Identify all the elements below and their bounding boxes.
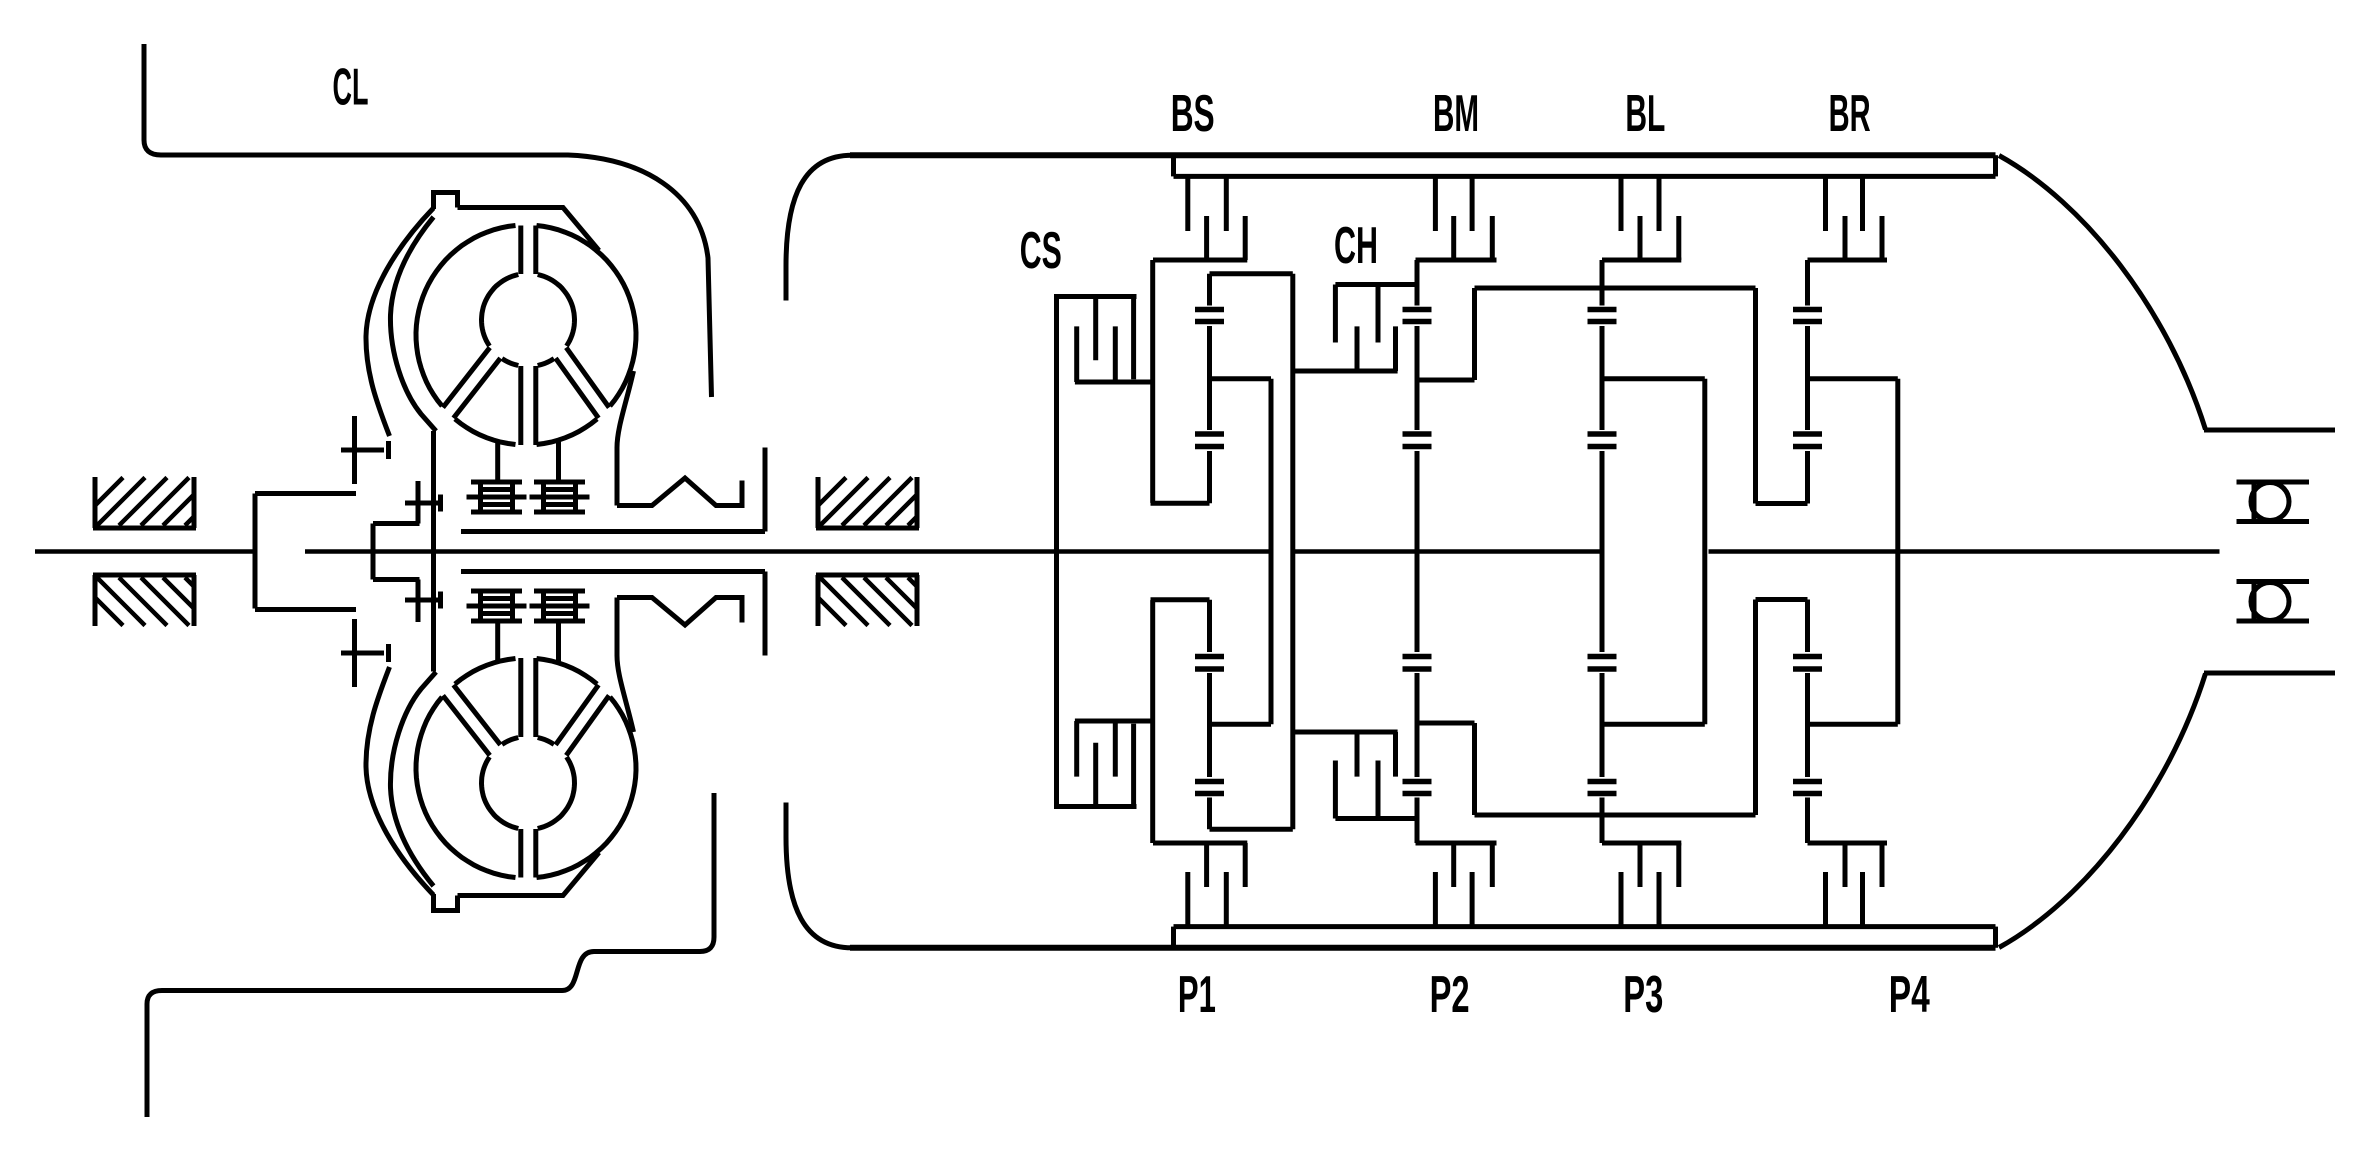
clutch CS inner plate [1093,297,1098,361]
wire: converter cover outer curve (mirror) [366,667,434,895]
wire: P4 carrier output wall [1895,379,1900,724]
clutch CS hub plate 2 [1113,326,1118,382]
clutch CL tick inner [405,501,443,506]
wire: main axis centerline segment [35,549,255,554]
wire: P2-P4 drum top line (mirror) [1475,813,1756,818]
spring: damper zigzag [617,478,742,506]
wire: clutch CS drum wall [1054,297,1059,807]
wire: converter cover top line (mirror) [458,853,600,896]
svg-text:BM: BM [1433,85,1479,143]
gear mesh P1 ring bar 1 [1195,307,1224,313]
wire: P2-P4 drum top line [1475,286,1756,291]
wire: converter pump stem left (mirror) [495,621,500,662]
gear mesh P4 sun bar 2 [1793,444,1822,450]
wire: converter shell inner curve (mirror) [390,672,436,886]
gear mesh P4 ring bar 1 (mirror) [1793,791,1822,797]
wire: P1 carrier bar [1210,376,1272,381]
wire: converter cover top line [458,208,600,251]
damper plate pack right (mirror) [530,591,590,621]
clutch CL tick upper (mirror) [341,651,384,656]
brake BS stator plate (mirror) [1224,872,1229,927]
svg-text:P4: P4 [1889,966,1930,1024]
wire: turbine shaft line [461,529,765,534]
svg-text:P3: P3 [1623,966,1663,1024]
svg-text:P2: P2 [1430,966,1470,1024]
gear mesh P1 sun bar 2 [1195,444,1224,450]
brake BS stator plate [1224,176,1229,231]
gear mesh P4 sun bar 1 (mirror) [1793,666,1822,672]
clutch CS hub plate 1 [1074,326,1079,382]
wire: converter torus outer arc (mirror) [416,697,516,878]
wire: converter torus outer arc [537,419,598,445]
wire: converter diagonal channel right [556,358,599,418]
gear mesh P4 sun bar 1 [1793,431,1822,437]
brake BR rotor plate (mirror) [1843,843,1848,887]
wire: converter impeller exit curve [617,371,634,506]
brake BR rotor plate [1880,216,1885,260]
wire: P2-P4 drum right wall (mirror) [1753,600,1758,816]
clutch CH cup left wall [1333,285,1338,343]
wire: converter split channel upper wall (mirror) [518,829,523,878]
wire: turbine hub step line [373,521,420,526]
brake BS rotor plate (mirror) [1243,843,1248,887]
svg-text:CL: CL [333,59,369,117]
clutch CS hub line [1075,380,1153,385]
ground: case bearing block mid [816,477,919,528]
clutch CL tick upper [341,448,384,453]
brake BM carrier line [1416,258,1497,263]
wire: converter torus outer arc [537,226,637,407]
wire: converter stator hub arc [482,275,519,347]
svg-text:BL: BL [1625,85,1665,143]
brake BL rotor plate [1638,216,1643,260]
brake BM rotor plate [1490,216,1495,260]
clutch CH cup left wall (mirror) [1333,761,1338,819]
gear mesh P2 sun bar 1 [1403,431,1432,437]
wire: main axis centerline segment [305,549,1272,554]
wire: P3 carrier bar [1602,376,1705,381]
brake BR carrier line (mirror) [1808,841,1888,846]
gear mesh P3 sun bar 1 [1588,431,1617,437]
wire: converter split channel lower wall [533,366,538,445]
clutch CL bar inner (mirror) [438,592,443,609]
clutch CH hub plate 2 [1393,326,1398,371]
clutch CS cup top (mirror) [1054,804,1137,809]
damper plate pack left [467,482,527,512]
wire: gearbox case top line [850,152,1996,158]
wire: gearbox case top-left corner (mirror) [786,803,852,948]
clutch CH inner plate (mirror) [1376,761,1381,819]
bearing: output bearing ball [2251,483,2289,521]
wire: output shaft housing line (mirror) [2204,671,2335,676]
clutch CH hub line (mirror) [1293,730,1398,735]
wire: converter shell inner curve [390,217,436,431]
wire: P4 sun shaft line [1756,501,1808,506]
svg-text:CH: CH [1334,217,1378,275]
gear mesh P1 sun bar 1 [1195,431,1224,437]
wire: converter split channel lower wall [518,366,523,445]
gear mesh P2 ring bar 2 (mirror) [1403,779,1432,785]
wire: P3 carrier bar (mirror) [1602,722,1705,727]
wire: input flange top line (mirror) [255,607,356,612]
wire: input flange vertical wall [253,494,258,609]
wire: turbine hub step line (mirror) [373,577,420,582]
wire: brake rail right end [1993,155,1998,176]
clutch CS hub plate 2 (mirror) [1113,721,1118,777]
clutch CH hub plate 2 (mirror) [1393,732,1398,777]
wire: P2-P4 drum left wall (mirror) [1472,723,1477,815]
gear mesh P2 sun bar 2 [1403,444,1432,450]
brake BM rotor plate (mirror) [1490,843,1495,887]
brake BS rotor plate [1204,216,1209,260]
svg-text:BR: BR [1829,85,1871,143]
gear mesh P2 sun bar 2 (mirror) [1403,654,1432,660]
wire: P4 sun shaft line (mirror) [1756,597,1808,602]
clutch CL plate upper (mirror) [352,619,357,687]
wire: brake rail bottom line (mirror) [1174,924,1996,929]
wire: P1 sun drum wall (mirror) [1150,600,1155,843]
wire: planetary P1 pinion line [1207,274,1212,829]
ground: case bearing block mid (mirror) [816,575,919,626]
wire: gearbox case right curve (mirror) [1999,673,2206,948]
svg-text:BS: BS [1171,85,1215,143]
wire: P2 carrier bar [1417,378,1475,383]
wire: converter cover tab (mirror) [434,894,458,911]
clutch CL plate inner [416,481,421,524]
svg-text:CS: CS [1020,222,1062,280]
gear mesh P4 ring bar 2 [1793,319,1822,325]
brake BS rotor plate (mirror) [1204,843,1209,887]
gear mesh P1 ring bar 2 (mirror) [1195,779,1224,785]
clutch CH cup top (mirror) [1335,816,1417,821]
gear mesh P2 ring bar 1 (mirror) [1403,791,1432,797]
wire: converter diagonal channel left (mirror) [443,696,490,756]
ground: case bearing block left hatching [95,478,194,526]
wire: converter diagonal channel right (mirror) [556,685,599,745]
wire: converter diagonal channel left [454,358,501,418]
wire: converter stator hub arc [538,275,575,347]
wire: converter diagonal channel right [566,348,609,408]
wire: input flange top line [255,491,356,496]
wire: converter split channel lower wall (mirror) [518,658,523,737]
wire: main axis centerline segment [1709,549,2220,554]
wire: converter split channel upper wall [533,226,538,275]
clutch CH hub plate 1 (mirror) [1355,732,1360,777]
wire: converter split channel upper wall [518,226,523,275]
wire: converter impeller exit curve (mirror) [617,598,634,733]
wire: input housing line top-left [144,44,712,397]
wire: converter cover outer curve [366,208,434,436]
brake BR stator plate [1860,176,1865,231]
gear mesh P3 ring bar 1 (mirror) [1588,791,1617,797]
wire: P2-P4 drum left wall [1472,288,1477,380]
wire: converter stator hub arc (mirror) [538,738,554,745]
wire: P1 sun shaft line [1151,501,1210,506]
damper plate pack right [530,482,590,512]
wire: P1 carrier bar (mirror) [1210,722,1272,727]
wire: brake rail bottom line [1174,174,1996,179]
brake BR carrier line [1808,258,1888,263]
wire: converter torus outer arc (mirror) [455,659,516,685]
gear mesh P3 ring bar 1 [1588,307,1617,313]
svg-text:P1: P1 [1178,966,1216,1024]
wire: converter split channel lower wall (mirror) [533,658,538,737]
brake BM rotor plate [1451,216,1456,260]
brake BM rotor plate (mirror) [1451,843,1456,887]
wire: converter cover tab [434,193,458,210]
clutch CL bar upper (mirror) [386,644,391,662]
wire: converter diagonal channel left [443,348,490,408]
gear mesh P3 ring bar 2 (mirror) [1588,779,1617,785]
wire: P2-P4 drum right wall [1753,288,1758,504]
gear mesh P4 ring bar 1 [1793,307,1822,313]
brake BL carrier line (mirror) [1602,841,1681,846]
brake BM carrier line (mirror) [1416,841,1497,846]
wire: brake rail right end (mirror) [1993,927,1998,948]
wire: turbine hub right wall (mirror) [763,572,768,656]
brake BS stator plate (mirror) [1185,872,1190,927]
clutch CL tick inner (mirror) [405,598,443,603]
damper plate pack left (mirror) [467,591,527,621]
wire: gearbox case right curve [1999,156,2206,431]
brake BM stator plate (mirror) [1433,872,1438,927]
wire: output shaft housing line [2204,428,2335,433]
brake BL stator plate [1657,176,1662,231]
wire: planetary P4 pinion line [1805,260,1810,843]
wire: converter split channel upper wall (mirror) [533,829,538,878]
wire: converter stator hub arc [538,359,554,366]
wire: planetary P2 pinion line [1415,260,1420,843]
clutch CS hub plate 1 (mirror) [1074,721,1079,777]
wire: converter torus outer arc [455,419,516,445]
brake BR rotor plate [1843,216,1848,260]
gear mesh P2 ring bar 1 [1403,307,1432,313]
gear mesh P3 sun bar 2 [1588,444,1617,450]
bearing: output shaft bearing (mirror) [2237,582,2310,622]
wire: converter torus outer arc (mirror) [537,697,637,878]
wire: converter diagonal channel left (mirror) [454,685,501,745]
clutch CH inner plate [1376,285,1381,343]
wire: P1 sun shaft line (mirror) [1151,597,1210,602]
clutch CS cup right wall (mirror) [1131,724,1136,807]
wire: converter stator hub arc (mirror) [502,738,518,745]
ground: case bearing block mid hatching (mirror) [818,578,917,626]
ground: case bearing block left hatching (mirror) [95,578,194,626]
wire: turbine shaft line (mirror) [461,569,765,574]
clutch CL bar inner [438,495,443,512]
wire: brake rail left step (mirror) [1171,927,1176,948]
wire: converter torus outer arc [416,226,516,407]
wire: converter stator hub arc (mirror) [482,757,519,829]
wire: converter stator hub arc (mirror) [538,757,575,829]
brake BL stator plate [1619,176,1624,231]
wire: converter shell inner wall [431,431,436,672]
clutch CL bar upper [386,441,391,459]
brake BR rotor plate (mirror) [1880,843,1885,887]
gear mesh P1 sun bar 2 (mirror) [1195,654,1224,660]
spring: damper zigzag (mirror) [617,598,742,626]
ground: case bearing block left (mirror) [93,575,196,626]
gear mesh P3 sun bar 2 (mirror) [1588,654,1617,660]
wire: P1 ring drum top (mirror) [1210,827,1293,832]
clutch CS cup right wall [1131,297,1136,380]
clutch CH hub line [1293,369,1398,374]
gear mesh P2 sun bar 1 (mirror) [1403,666,1432,672]
wire: P2 carrier bar (mirror) [1417,721,1475,726]
brake BL rotor plate [1676,216,1681,260]
gear mesh P3 sun bar 1 (mirror) [1588,666,1617,672]
clutch CS hub line (mirror) [1075,719,1153,724]
brake BL carrier line [1602,258,1681,263]
wire: P4 carrier bar [1808,376,1898,381]
clutch CS cup top [1054,294,1137,299]
brake BM stator plate (mirror) [1470,872,1475,927]
wire: gearbox case top-left corner [786,155,852,300]
ground: case bearing block left [93,477,196,528]
gear mesh P4 ring bar 2 (mirror) [1793,779,1822,785]
clutch CL plate inner (mirror) [416,580,421,623]
wire: gearbox case top line (mirror) [850,945,1996,951]
wire: P4 carrier bar (mirror) [1808,722,1898,727]
gear mesh P1 ring bar 2 [1195,319,1224,325]
wire: turbine hub right wall [763,448,768,532]
gear mesh P1 ring bar 1 (mirror) [1195,791,1224,797]
wire: input housing line bottom-left [147,793,714,1117]
bearing: output bearing ball (mirror) [2251,583,2289,621]
brake BL stator plate (mirror) [1657,872,1662,927]
brake BS rotor plate [1243,216,1248,260]
clutch CS inner plate (mirror) [1093,743,1098,807]
gear mesh P1 sun bar 1 (mirror) [1195,666,1224,672]
wire: turbine hub vertical wall [371,524,376,580]
bearing: output shaft bearing [2237,482,2310,522]
clutch CH cup top [1335,282,1417,287]
wire: converter pump stem left [495,441,500,482]
wire: converter pump stem right [556,440,561,482]
wire: converter torus outer arc (mirror) [537,659,598,685]
ground: case bearing block mid hatching [818,478,917,526]
brake BR stator plate (mirror) [1823,872,1828,927]
brake BM stator plate [1433,176,1438,231]
brake BM stator plate [1470,176,1475,231]
wire: converter pump stem right (mirror) [556,621,561,663]
wire: brake rail left step [1171,155,1176,176]
brake BR stator plate [1823,176,1828,231]
wire: converter stator hub arc [502,359,518,366]
brake BL rotor plate (mirror) [1638,843,1643,887]
wire: main axis centerline segment [1293,549,1600,554]
wire: planetary P3 pinion line [1600,260,1605,843]
gear mesh P4 sun bar 2 (mirror) [1793,654,1822,660]
wire: converter diagonal channel right (mirror) [566,696,609,756]
wire: P1 carrier output wall [1269,379,1274,724]
clutch CL plate upper [352,416,357,484]
wire: P3 carrier output wall [1702,379,1707,724]
wire: P1 sun drum wall [1150,260,1155,503]
brake BS carrier line [1153,258,1247,263]
brake BR stator plate (mirror) [1860,872,1865,927]
gear mesh P3 ring bar 2 [1588,319,1617,325]
gear mesh P2 ring bar 2 [1403,319,1432,325]
brake BS stator plate [1185,176,1190,231]
brake BL rotor plate (mirror) [1676,843,1681,887]
brake BS carrier line (mirror) [1153,841,1247,846]
clutch CH hub plate 1 [1355,326,1360,371]
wire: P1 ring drum right wall [1290,274,1295,829]
brake BL stator plate (mirror) [1619,872,1624,927]
wire: P1 ring drum top [1210,271,1293,276]
